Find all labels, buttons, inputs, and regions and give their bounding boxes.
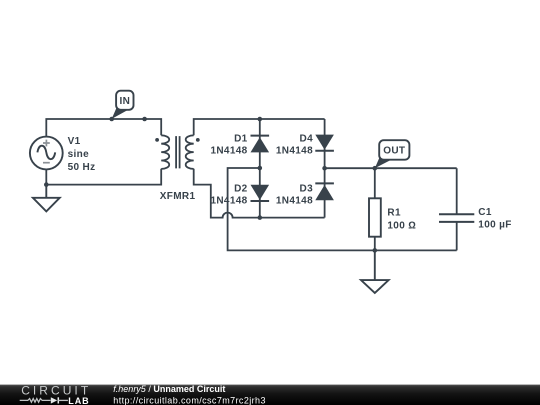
node dot D1-D2 midpoint	[258, 166, 263, 171]
label D3 1N4148	[276, 183, 313, 206]
footer bar	[0, 385, 540, 405]
node dot D4-D3 midpoint	[322, 166, 327, 171]
diode D4	[315, 119, 334, 168]
svg-text:OUT: OUT	[383, 146, 405, 157]
capacitor C1	[439, 168, 474, 250]
svg-text:IN: IN	[119, 96, 130, 107]
svg-text:1N4148: 1N4148	[210, 146, 247, 157]
flag OUT	[375, 140, 410, 168]
svg-text:100 µF: 100 µF	[478, 220, 511, 231]
wire V1 bottom rail to XFMR1 primary bottom	[46, 169, 161, 185]
wire DC minus from D1-D2 midpoint down to bottom rail	[228, 168, 457, 250]
svg-text:D2: D2	[234, 183, 248, 194]
label R1 100 ohm	[387, 208, 416, 232]
phase dot primary	[155, 138, 159, 142]
svg-text:D4: D4	[300, 133, 314, 144]
voltage source V1	[30, 137, 63, 170]
svg-text:LAB: LAB	[68, 396, 89, 405]
node dot V1 bottom junction	[44, 182, 49, 187]
svg-text:XFMR1: XFMR1	[160, 191, 196, 202]
svg-text:sine: sine	[68, 149, 89, 160]
node dot R1 bottom	[373, 248, 378, 253]
wire XFMR1 secondary top rail to D4	[194, 119, 325, 135]
svg-text:R1: R1	[387, 208, 401, 219]
svg-text:V1: V1	[68, 136, 81, 147]
svg-text:http://circuitlab.com/csc7m7rc: http://circuitlab.com/csc7m7rc2jrh3	[113, 395, 266, 405]
label C1 100 uF	[478, 207, 511, 231]
wire OUT mid rail from D4-D3 midpoint to C1	[325, 167, 457, 169]
diode D1	[251, 119, 270, 168]
ground below R1	[361, 250, 389, 293]
label D4 1N4148	[276, 133, 313, 156]
label D1 1N4148	[210, 133, 247, 156]
node dot D1 top	[258, 117, 263, 122]
svg-text:1N4148: 1N4148	[210, 196, 247, 207]
svg-text:100 Ω: 100 Ω	[387, 220, 416, 231]
diode D3	[315, 168, 334, 217]
wire V1 top to XFMR1 primary top rail	[46, 119, 161, 137]
node dot wire joint on top rail	[142, 117, 147, 122]
phase dot secondary	[196, 138, 200, 142]
ground below V1	[33, 185, 60, 212]
node dot IN attach	[109, 117, 114, 122]
svg-text:50 Hz: 50 Hz	[68, 162, 96, 173]
node dot D2 bottom	[258, 215, 263, 220]
diode D2	[251, 168, 270, 218]
svg-text:1N4148: 1N4148	[276, 146, 313, 157]
wire XFMR1 secondary bottom to bridge bottom rail with hop	[194, 169, 325, 218]
svg-text:D3: D3	[300, 183, 314, 194]
flag IN	[112, 91, 134, 119]
resistor R1	[369, 168, 381, 250]
logo resistor zigzag	[20, 399, 51, 403]
svg-text:1N4148: 1N4148	[276, 196, 313, 207]
node dot OUT R1 top	[373, 166, 378, 171]
label V1 sine 50 Hz	[68, 136, 96, 173]
label D2 1N4148	[210, 183, 247, 206]
svg-text:C1: C1	[478, 207, 492, 218]
logo diode	[51, 397, 68, 403]
transformer XFMR1	[161, 135, 194, 169]
svg-text:D1: D1	[234, 133, 248, 144]
svg-text:f.henry5 / Unnamed Circuit: f.henry5 / Unnamed Circuit	[113, 384, 225, 394]
